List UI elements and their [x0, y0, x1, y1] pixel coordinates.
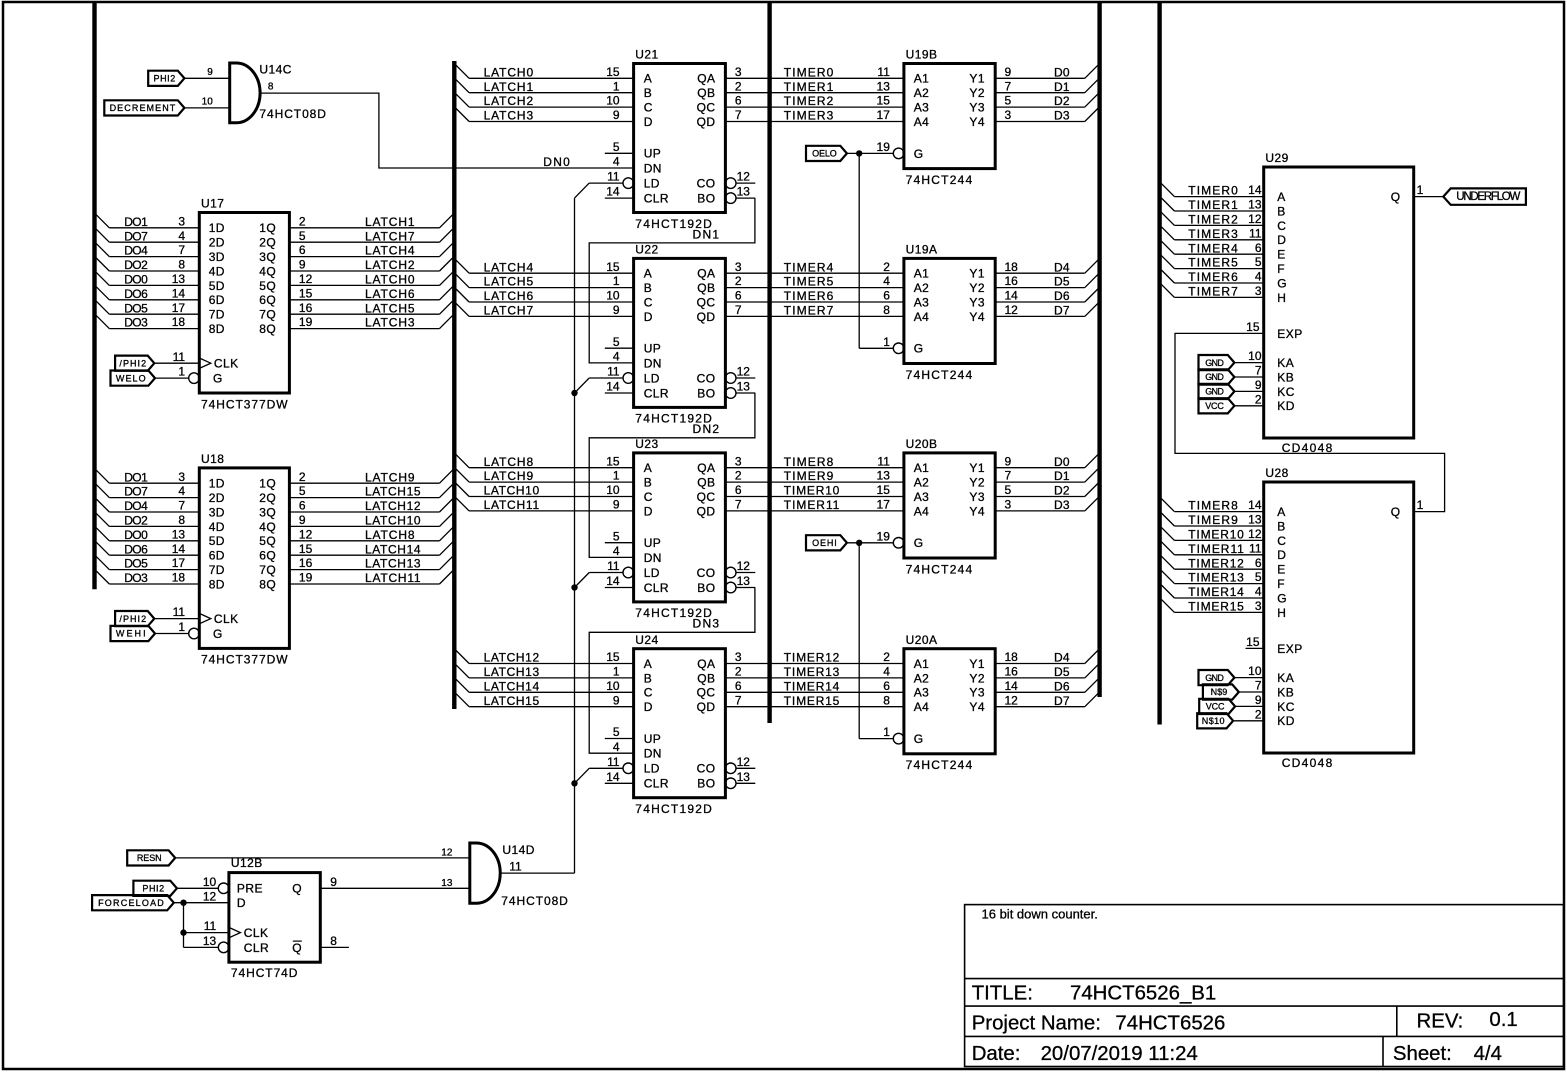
svg-text:DO2: DO2 — [124, 514, 148, 528]
svg-text:1Q: 1Q — [259, 221, 276, 235]
wire /PHI2 to U17 CLK pin 11 — [154, 350, 199, 364]
svg-text:74HCT6526: 74HCT6526 — [1115, 1013, 1225, 1035]
svg-text:15: 15 — [606, 454, 620, 468]
svg-text:LATCH7: LATCH7 — [484, 304, 534, 318]
svg-text:CLR: CLR — [644, 386, 669, 400]
svg-text:D: D — [644, 700, 653, 714]
svg-text:Y3: Y3 — [969, 686, 985, 700]
wire U21 LD pin 11 to load line — [575, 170, 624, 198]
wire/net TIMER0 into U29 — [1161, 183, 1263, 198]
svg-text:A1: A1 — [914, 72, 930, 86]
wire/net LATCH15 from U18 pin 5 — [289, 484, 452, 499]
svg-text:F: F — [1277, 577, 1285, 591]
svg-text:Y1: Y1 — [969, 657, 985, 671]
wire U23 LD pin 11 to load line — [571, 559, 623, 591]
svg-text:QD: QD — [697, 115, 716, 129]
svg-text:8: 8 — [178, 258, 185, 272]
svg-text:Y3: Y3 — [969, 295, 985, 309]
svg-text:LATCH4: LATCH4 — [365, 244, 415, 258]
svg-text:TIMER6: TIMER6 — [1188, 270, 1238, 284]
svg-text:A3: A3 — [914, 686, 930, 700]
wire WEHI to U18 G pin 1 — [155, 620, 189, 634]
svg-text:TIMER10: TIMER10 — [1188, 528, 1244, 542]
svg-text:U22: U22 — [635, 243, 658, 257]
svg-text:1: 1 — [1417, 183, 1424, 197]
svg-text:13: 13 — [737, 185, 751, 199]
wire DECREMENT to U14C pin 10 — [184, 97, 229, 108]
wire FORCELOAD to U12B D pin 12 / CLK pin 11 / CLR pin 13 — [174, 889, 229, 948]
svg-text:PHI2: PHI2 — [142, 884, 164, 894]
svg-text:D2: D2 — [1054, 484, 1070, 498]
svg-text:74HCT74D: 74HCT74D — [231, 966, 298, 980]
svg-text:LATCH14: LATCH14 — [365, 542, 421, 556]
svg-text:B: B — [644, 86, 652, 100]
svg-text:DO3: DO3 — [124, 571, 148, 585]
svg-text:12: 12 — [203, 889, 217, 903]
svg-text:C: C — [644, 101, 653, 115]
svg-text:B: B — [1277, 519, 1285, 533]
svg-text:Y4: Y4 — [969, 504, 985, 518]
svg-text:LATCH14: LATCH14 — [484, 679, 540, 693]
svg-text:2Q: 2Q — [259, 491, 276, 505]
IC U23 (74HCT192D) box — [623, 437, 736, 620]
svg-text:LATCH1: LATCH1 — [365, 215, 415, 229]
svg-text:DO7: DO7 — [124, 485, 148, 499]
IC U19A (74HCT244) box — [893, 243, 995, 382]
svg-text:Y2: Y2 — [969, 281, 985, 295]
svg-text:8: 8 — [268, 82, 274, 93]
svg-text:TIMER0: TIMER0 — [1188, 184, 1238, 198]
svg-text:15: 15 — [606, 650, 620, 664]
wire/net TIMER3 from U21 pin 7 to buffer pin 17 — [725, 108, 904, 123]
svg-text:5: 5 — [1255, 570, 1262, 584]
svg-text:3: 3 — [735, 454, 742, 468]
svg-text:15: 15 — [877, 94, 891, 108]
svg-text:TIMER11: TIMER11 — [784, 498, 840, 512]
U24 CLR pin 14 stub — [605, 770, 634, 784]
svg-text:D4: D4 — [1054, 651, 1070, 665]
svg-text:D0: D0 — [1054, 455, 1070, 469]
svg-text:OELO: OELO — [812, 149, 837, 159]
wire/net LATCH5 from U17 pin 16 — [289, 301, 452, 316]
svg-text:UNDERFLOW: UNDERFLOW — [1456, 191, 1520, 203]
U23 CLR pin 14 stub — [605, 574, 634, 588]
svg-text:Y2: Y2 — [969, 671, 985, 685]
svg-text:A3: A3 — [914, 295, 930, 309]
svg-text:13: 13 — [877, 469, 891, 483]
svg-text:A: A — [644, 72, 652, 86]
flag FORCELOAD — [92, 895, 174, 910]
svg-text:11: 11 — [877, 65, 890, 79]
IC U29 (CD4048) box — [1264, 151, 1414, 455]
svg-text:LD: LD — [644, 762, 660, 776]
svg-text:LATCH5: LATCH5 — [484, 275, 534, 289]
svg-text:11: 11 — [173, 350, 186, 364]
svg-text:6: 6 — [883, 679, 890, 693]
svg-text:U14C: U14C — [259, 63, 291, 77]
svg-text:16: 16 — [299, 301, 313, 315]
svg-text:2: 2 — [1255, 392, 1262, 406]
bus TIMER[0..15] (right) — [1157, 2, 1161, 725]
svg-text:G: G — [914, 147, 924, 161]
svg-text:8Q: 8Q — [259, 577, 276, 591]
svg-text:13: 13 — [441, 878, 453, 889]
svg-text:12: 12 — [737, 559, 751, 573]
svg-text:9: 9 — [330, 875, 337, 889]
svg-text:4: 4 — [178, 484, 185, 498]
svg-text:G: G — [914, 536, 924, 550]
wire/net LATCH11 into U23 pin 9 — [456, 498, 633, 513]
wire/net TIMER2 from U21 pin 6 to buffer pin 15 — [725, 94, 904, 109]
svg-text:3: 3 — [1255, 284, 1262, 298]
svg-text:2D: 2D — [209, 236, 225, 250]
wire/net TIMER11 from U23 pin 7 to buffer pin 17 — [725, 498, 904, 513]
svg-text:Y4: Y4 — [969, 310, 985, 324]
svg-text:DN3: DN3 — [693, 617, 720, 631]
svg-text:TIMER0: TIMER0 — [784, 65, 834, 79]
svg-text:14: 14 — [606, 185, 620, 199]
svg-text:3D: 3D — [209, 250, 225, 264]
svg-text:QA: QA — [697, 461, 715, 475]
wire GND to U29 KC pin 9 — [1234, 378, 1263, 392]
wire/net D1 from U19B pin 7 — [995, 79, 1098, 94]
svg-text:REV:: REV: — [1417, 1011, 1464, 1033]
wire/net D4 from U20A pin 18 — [995, 650, 1098, 665]
IC U28 (CD4048) box — [1264, 466, 1414, 770]
wire/net LATCH3 into U21 pin 9 — [456, 108, 633, 123]
wire/net LATCH12 from U18 pin 6 — [289, 499, 452, 513]
svg-text:G: G — [914, 732, 924, 746]
svg-text:Y3: Y3 — [969, 101, 985, 115]
svg-text:U23: U23 — [635, 437, 658, 451]
svg-text:74HCT377DW: 74HCT377DW — [201, 397, 288, 411]
flag GND — [1199, 670, 1235, 685]
svg-text:U19A: U19A — [906, 243, 938, 257]
svg-text:G: G — [1277, 276, 1287, 290]
svg-text:12: 12 — [1005, 303, 1019, 317]
wire/net DO4 into U17 pin 7 — [96, 243, 199, 258]
svg-text:PRE: PRE — [237, 882, 263, 896]
svg-text:LATCH12: LATCH12 — [484, 651, 540, 665]
svg-text:18: 18 — [1005, 260, 1019, 274]
svg-text:DN: DN — [644, 356, 662, 370]
wire/net TIMER11 into U28 — [1161, 541, 1263, 556]
flag /PHI2 — [115, 611, 154, 626]
wire/net DO6 into U17 pin 14 — [96, 286, 199, 301]
wire/net TIMER13 into U28 — [1161, 570, 1263, 585]
flag OELO — [806, 146, 847, 161]
svg-text:F: F — [1277, 262, 1285, 276]
svg-text:Y4: Y4 — [969, 115, 985, 129]
wire/net LATCH8 into U23 pin 15 — [456, 454, 633, 469]
wire/net D5 from U19A pin 16 — [995, 274, 1098, 289]
U29 EXP pin 15 — [1246, 320, 1260, 334]
wire/net LATCH4 from U17 pin 6 — [289, 243, 452, 258]
svg-text:17: 17 — [877, 498, 891, 512]
svg-text:UP: UP — [644, 732, 662, 746]
svg-text:4D: 4D — [209, 264, 225, 278]
U14C labels — [259, 63, 326, 121]
svg-text:1: 1 — [613, 79, 620, 93]
title block TITLE row — [972, 982, 1217, 1004]
svg-text:TIMER13: TIMER13 — [1188, 571, 1244, 585]
wire RESN to U14D pin 12 — [175, 848, 470, 859]
svg-text:4Q: 4Q — [259, 264, 276, 278]
svg-text:TIMER6: TIMER6 — [784, 289, 834, 303]
svg-text:5: 5 — [1005, 483, 1012, 497]
svg-text:3: 3 — [735, 260, 742, 274]
wire/net TIMER4 from U22 pin 3 to buffer pin 2 — [725, 260, 904, 275]
svg-text:WELO: WELO — [116, 373, 146, 383]
svg-text:KA: KA — [1277, 671, 1294, 685]
svg-text:7: 7 — [1255, 364, 1262, 378]
svg-text:11: 11 — [607, 170, 620, 184]
wire/net D6 from U19A pin 14 — [995, 289, 1098, 304]
svg-text:TIMER15: TIMER15 — [1188, 600, 1244, 614]
svg-text:DN: DN — [644, 551, 662, 565]
wire/net TIMER7 into U29 — [1161, 284, 1263, 299]
svg-text:TIMER7: TIMER7 — [1188, 285, 1238, 299]
svg-text:6: 6 — [735, 483, 742, 497]
wire N$10 to U28 KD pin 2 — [1233, 707, 1264, 721]
svg-text:TIMER10: TIMER10 — [784, 484, 840, 498]
svg-text:QA: QA — [697, 72, 715, 86]
svg-text:LATCH9: LATCH9 — [484, 469, 534, 483]
svg-text:Date:: Date: — [972, 1043, 1021, 1065]
svg-text:11: 11 — [204, 919, 217, 933]
U22 BO pin 13 — [736, 380, 755, 394]
svg-text:Sheet:: Sheet: — [1393, 1043, 1452, 1065]
svg-text:KD: KD — [1277, 399, 1295, 413]
svg-text:2: 2 — [299, 214, 306, 228]
svg-text:74HCT6526_B1: 74HCT6526_B1 — [1070, 982, 1216, 1004]
wire/net LATCH9 into U23 pin 1 — [456, 469, 633, 484]
wire DN0 net (U14C out to U21 DN pin 4) — [260, 93, 633, 169]
wire/net TIMER12 from U24 pin 3 to buffer pin 2 — [725, 650, 904, 665]
wire U24 LD pin 11 to load line — [571, 755, 623, 787]
svg-text:LATCH4: LATCH4 — [484, 260, 534, 274]
svg-text:H: H — [1277, 606, 1286, 620]
U21 BO pin 13 — [736, 185, 755, 199]
wire/net LATCH10 into U23 pin 10 — [456, 483, 633, 498]
svg-text:8: 8 — [330, 934, 337, 948]
svg-text:C: C — [1277, 534, 1286, 548]
U20A G enable pin 1 — [883, 725, 890, 739]
svg-text:3: 3 — [735, 650, 742, 664]
svg-text:TIMER7: TIMER7 — [784, 304, 834, 318]
svg-text:D2: D2 — [1054, 94, 1070, 108]
svg-text:DN: DN — [644, 747, 662, 761]
wire/net LATCH3 from U17 pin 19 — [289, 315, 452, 330]
svg-text:6D: 6D — [209, 549, 225, 563]
svg-text:BO: BO — [697, 777, 715, 791]
svg-text:5D: 5D — [209, 279, 225, 293]
svg-text:Y4: Y4 — [969, 700, 985, 714]
svg-text:A1: A1 — [914, 267, 930, 281]
svg-text:LATCH10: LATCH10 — [484, 484, 540, 498]
wire/net TIMER8 from U23 pin 3 to buffer pin 11 — [725, 454, 904, 469]
title block project row — [972, 1009, 1518, 1035]
wire/net D3 from U19B pin 3 — [995, 108, 1098, 123]
svg-text:12: 12 — [299, 272, 313, 286]
svg-text:G: G — [213, 372, 223, 386]
wire GND to U29 KB pin 7 — [1234, 364, 1263, 378]
svg-text:A4: A4 — [914, 310, 930, 324]
svg-text:TIMER9: TIMER9 — [784, 469, 834, 483]
svg-text:KD: KD — [1277, 714, 1295, 728]
svg-text:13: 13 — [1248, 198, 1262, 212]
svg-text:2Q: 2Q — [259, 236, 276, 250]
svg-text:TIMER3: TIMER3 — [1188, 227, 1238, 241]
svg-text:4: 4 — [1255, 270, 1262, 284]
svg-text:QB: QB — [697, 476, 715, 490]
wire/net D6 from U20A pin 14 — [995, 679, 1098, 694]
svg-text:LATCH3: LATCH3 — [365, 316, 415, 330]
svg-text:5: 5 — [613, 529, 620, 543]
svg-text:7D: 7D — [209, 308, 225, 322]
svg-text:16 bit down counter.: 16 bit down counter. — [982, 906, 1098, 921]
svg-text:14: 14 — [1005, 289, 1019, 303]
U24 BO pin 13 — [736, 770, 755, 784]
IC U22 (74HCT192D) box — [623, 243, 736, 426]
svg-text:1: 1 — [178, 620, 185, 634]
svg-text:UP: UP — [644, 147, 662, 161]
wire/net TIMER3 into U29 — [1161, 226, 1263, 241]
wire/net DO7 into U18 pin 4 — [96, 484, 199, 499]
svg-text:3: 3 — [178, 470, 185, 484]
svg-text:14: 14 — [606, 770, 620, 784]
wire/net DO5 into U17 pin 17 — [96, 301, 199, 316]
svg-text:1Q: 1Q — [259, 477, 276, 491]
svg-text:LATCH12: LATCH12 — [365, 499, 421, 513]
svg-text:LATCH13: LATCH13 — [365, 557, 421, 571]
svg-text:RESN: RESN — [137, 853, 162, 863]
svg-text:1: 1 — [1417, 498, 1424, 512]
svg-text:D: D — [644, 310, 653, 324]
wire/net DO0 into U18 pin 13 — [96, 527, 199, 542]
svg-text:DO1: DO1 — [124, 470, 148, 484]
svg-text:D: D — [1277, 548, 1286, 562]
svg-text:CLR: CLR — [644, 192, 669, 206]
svg-text:U18: U18 — [201, 452, 224, 466]
svg-text:G: G — [1277, 591, 1287, 605]
svg-text:6: 6 — [299, 499, 306, 513]
svg-text:CLK: CLK — [244, 926, 269, 940]
svg-text:10: 10 — [606, 94, 620, 108]
svg-text:14: 14 — [1248, 183, 1262, 197]
svg-text:4: 4 — [883, 665, 890, 679]
svg-text:4: 4 — [613, 155, 620, 169]
svg-text:12: 12 — [737, 755, 751, 769]
wire/net TIMER2 into U29 — [1161, 212, 1263, 227]
svg-text:D1: D1 — [1054, 469, 1070, 483]
svg-text:QC: QC — [697, 101, 716, 115]
svg-text:74HCT08D: 74HCT08D — [259, 107, 326, 121]
svg-text:/PHI2: /PHI2 — [119, 614, 146, 624]
svg-text:1D: 1D — [209, 477, 225, 491]
svg-text:LATCH0: LATCH0 — [365, 273, 415, 287]
AND gate U14C body — [230, 63, 260, 123]
svg-text:4Q: 4Q — [259, 520, 276, 534]
svg-text:15: 15 — [606, 65, 620, 79]
U12B Q-bar pin 8 stub — [320, 934, 349, 948]
flag /PHI2 — [115, 356, 154, 371]
svg-text:6: 6 — [299, 243, 306, 257]
svg-text:2: 2 — [735, 469, 742, 483]
wire/net LATCH15 into U24 pin 9 — [456, 693, 633, 708]
svg-text:8Q: 8Q — [259, 322, 276, 336]
svg-text:U21: U21 — [635, 48, 658, 62]
wire/net D2 from U20B pin 5 — [995, 483, 1098, 498]
svg-text:6Q: 6Q — [259, 293, 276, 307]
svg-text:D7: D7 — [1054, 304, 1070, 318]
svg-text:QA: QA — [697, 657, 715, 671]
svg-text:A1: A1 — [914, 657, 930, 671]
svg-text:7Q: 7Q — [259, 308, 276, 322]
svg-text:9: 9 — [613, 498, 620, 512]
svg-text:14: 14 — [606, 380, 620, 394]
svg-text:D: D — [237, 896, 246, 910]
svg-text:TIMER8: TIMER8 — [1188, 499, 1238, 513]
wire/net TIMER1 from U21 pin 2 to buffer pin 13 — [725, 79, 904, 94]
svg-text:LD: LD — [644, 566, 660, 580]
svg-text:11: 11 — [1249, 226, 1262, 240]
wire PHI2 to U14C pin 9 — [184, 67, 229, 78]
wire OELO to U19B/U19A G pins — [847, 150, 893, 348]
wire U28 Q pin 1 to U29 EXP pin 15 — [1175, 333, 1445, 512]
svg-text:13: 13 — [172, 272, 186, 286]
svg-text:B: B — [1277, 204, 1285, 218]
wire/net TIMER13 from U24 pin 2 to buffer pin 4 — [725, 665, 904, 680]
wire UNDERFLOW net from U29 Q pin 1 — [1414, 183, 1444, 197]
svg-text:A2: A2 — [914, 86, 930, 100]
svg-text:10: 10 — [202, 97, 214, 108]
svg-text:11: 11 — [877, 454, 890, 468]
svg-text:4/4: 4/4 — [1474, 1043, 1502, 1065]
U23 UP pin 5 stub — [605, 529, 634, 543]
svg-text:TIMER1: TIMER1 — [1188, 198, 1238, 212]
wire/net LATCH9 from U18 pin 2 — [289, 470, 452, 485]
svg-text:13: 13 — [172, 527, 186, 541]
wire/net TIMER10 into U28 — [1161, 527, 1263, 542]
wire/net TIMER9 from U23 pin 2 to buffer pin 13 — [725, 469, 904, 484]
svg-text:D4: D4 — [1054, 260, 1070, 274]
wire/net D1 from U20B pin 7 — [995, 469, 1098, 484]
wire /PHI2 to U18 CLK pin 11 — [154, 605, 199, 619]
svg-text:8: 8 — [883, 303, 890, 317]
svg-text:1: 1 — [883, 335, 890, 349]
svg-text:D3: D3 — [1054, 498, 1070, 512]
wire/net LATCH2 from U17 pin 9 — [289, 258, 452, 273]
svg-text:LATCH6: LATCH6 — [484, 289, 534, 303]
wire/net LATCH0 into U21 pin 15 — [456, 65, 633, 80]
IC U18 (74HCT377DW) box — [189, 452, 290, 667]
svg-text:LATCH15: LATCH15 — [365, 485, 421, 499]
wire DN2 net (U22 BO to U23 DN pin 4) — [589, 393, 755, 558]
wire U14D output pin 11 to load line — [500, 872, 574, 874]
svg-text:9: 9 — [299, 258, 306, 272]
U28 EXP pin 15 stub — [1246, 647, 1264, 649]
svg-text:KB: KB — [1277, 685, 1294, 699]
svg-text:A2: A2 — [914, 281, 930, 295]
svg-text:74HCT244: 74HCT244 — [906, 562, 973, 576]
svg-text:DO6: DO6 — [124, 287, 148, 301]
svg-text:5: 5 — [613, 140, 620, 154]
svg-text:GND: GND — [1205, 372, 1224, 382]
svg-text:B: B — [644, 671, 652, 685]
svg-text:A: A — [1277, 190, 1285, 204]
svg-text:QD: QD — [697, 700, 716, 714]
